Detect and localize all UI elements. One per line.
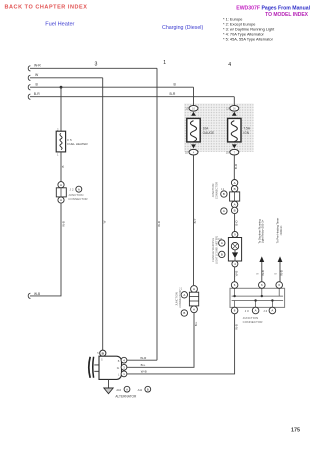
bus hook line 1 — [28, 66, 30, 71]
svg-text:A: A — [183, 293, 185, 297]
svg-text:A: A — [234, 203, 236, 207]
svg-text:B: B — [221, 253, 223, 257]
svg-text:B-Y: B-Y — [193, 219, 197, 224]
wire J2 to ground run — [30, 203, 61, 296]
svg-text:B-L: B-L — [141, 363, 146, 367]
svg-text:J 3: J 3 — [245, 309, 249, 313]
wire bus W-R — [30, 67, 157, 69]
wire W-R vertical — [156, 68, 158, 360]
svg-text:IGN: IGN — [243, 131, 249, 135]
svg-text:W-B: W-B — [235, 324, 239, 330]
svg-text:* 5: 45A, 55A Type Alternator: * 5: 45A, 55A Type Alternator — [223, 37, 274, 42]
node bus B to fuel heater — [60, 86, 63, 89]
junction connector J3 pin A lower — [231, 201, 237, 207]
wire bus W — [30, 77, 103, 79]
svg-text:A10: A10 — [116, 388, 121, 392]
svg-text:W-R: W-R — [157, 221, 161, 227]
svg-text:5: 5 — [97, 352, 99, 355]
JB bottom connector 2 — [252, 307, 259, 314]
svg-text:CONNECTOR: CONNECTOR — [68, 197, 88, 201]
svg-text:TO MODEL INDEX: TO MODEL INDEX — [265, 12, 309, 18]
connector circle A10 — [124, 386, 130, 392]
fuse IGN 7.5A — [228, 118, 241, 141]
svg-text:IG: IG — [117, 367, 120, 370]
svg-text:A: A — [60, 183, 62, 187]
alternator pin IG — [121, 364, 127, 370]
svg-text:W-B: W-B — [261, 270, 265, 276]
svg-text:FUEL HEATER: FUEL HEATER — [67, 142, 88, 146]
wire B to GAUGE fuse — [193, 87, 195, 105]
svg-text:CONNECTOR: CONNECTOR — [214, 182, 218, 199]
svg-text:1E: 1E — [274, 274, 277, 276]
svg-text:B-R: B-R — [170, 92, 176, 96]
svg-text:GAUGE: GAUGE — [203, 131, 215, 135]
junction connector J1 body — [189, 292, 198, 306]
svg-text:B: B — [36, 83, 39, 87]
svg-text:A: A — [221, 241, 223, 245]
bus hook line 3 — [28, 85, 30, 90]
fuse GAUGE 10A — [187, 118, 200, 141]
svg-text:W-B: W-B — [279, 270, 283, 276]
svg-text:CONNECTOR: CONNECTOR — [243, 320, 264, 324]
svg-text:W-R: W-R — [34, 64, 41, 68]
wire J3 to charge light — [234, 214, 236, 232]
wire charge light to JB — [234, 267, 236, 282]
svg-text:A: A — [271, 309, 273, 313]
connector 1D ign — [230, 149, 239, 155]
svg-text:J 1: J 1 — [179, 288, 183, 290]
svg-text:1D: 1D — [185, 151, 188, 154]
svg-text:B-O: B-O — [235, 220, 239, 226]
svg-text:W-R: W-R — [140, 356, 147, 360]
svg-text:C10: C10 — [218, 239, 223, 241]
wire B drop to fuel heater — [60, 87, 62, 131]
svg-text:1D: 1D — [226, 151, 229, 154]
connector circle A11 — [145, 386, 151, 392]
junction block shading — [184, 103, 254, 151]
svg-text:W-B: W-B — [61, 221, 65, 227]
svg-text:B: B — [147, 387, 149, 391]
svg-text:A: A — [255, 309, 257, 313]
charge light connector bottom — [232, 261, 238, 267]
junction connector J2 pin A bottom — [58, 197, 64, 203]
svg-text:B: B — [183, 311, 185, 315]
connector circle B of J3 — [221, 191, 227, 197]
svg-text:JUNCTION: JUNCTION — [175, 292, 179, 306]
svg-text:4: 4 — [228, 62, 231, 68]
svg-text:EWD307F Pages From Manual: EWD307F Pages From Manual — [236, 6, 310, 12]
svg-text:BACK TO CHAPTER INDEX: BACK TO CHAPTER INDEX — [5, 4, 88, 10]
charge light connector top — [232, 232, 238, 238]
svg-text:A: A — [193, 287, 195, 291]
svg-text:1: 1 — [57, 152, 59, 156]
JB bottom connector 1 — [231, 307, 238, 314]
alternator pin L — [121, 371, 127, 377]
svg-text:B: B — [174, 83, 177, 87]
junction connector J2 pin A top — [58, 182, 64, 188]
svg-text:A11: A11 — [138, 388, 143, 392]
junction connector J3 pin A — [231, 180, 237, 186]
svg-text:1: 1 — [163, 60, 166, 66]
wire bus B-R — [30, 96, 234, 98]
JB top connector 1 — [231, 282, 238, 289]
junction connector J2 body — [56, 188, 66, 197]
svg-text:W-B: W-B — [141, 370, 147, 374]
svg-text:W: W — [102, 220, 106, 223]
junction connector J3 body — [230, 192, 240, 201]
svg-text:A: A — [60, 198, 62, 202]
svg-text:B-R: B-R — [34, 92, 40, 96]
alternator body — [99, 356, 122, 379]
connector circle C10 lower — [219, 251, 225, 257]
junction connector J3 pin B lower — [231, 207, 237, 213]
svg-text:175: 175 — [291, 428, 300, 434]
svg-text:B-L: B-L — [194, 321, 198, 326]
wire fuel heater to J2 — [60, 152, 62, 182]
connector circle A2 of J3 — [221, 208, 227, 214]
wire bus B — [30, 86, 194, 88]
svg-text:W: W — [35, 73, 39, 77]
connector circle A of J2 — [76, 186, 82, 192]
svg-text:A: A — [234, 181, 236, 185]
connector circle J1 left lower — [181, 310, 187, 316]
wire JB to alternator E — [127, 314, 235, 374]
svg-text:W-B: W-B — [34, 292, 40, 296]
connector 1J ign — [230, 106, 239, 112]
svg-text:B: B — [61, 165, 65, 167]
svg-text:Charging (Diesel): Charging (Diesel) — [162, 25, 203, 31]
svg-text:CHARGE WARNING: CHARGE WARNING — [211, 238, 215, 262]
connector circle C10 upper — [219, 240, 225, 246]
svg-text:B: B — [234, 209, 236, 213]
arrow into gauge fuse — [191, 112, 196, 116]
junction connector J1 pin bottom — [191, 306, 198, 313]
hook ground wire — [28, 293, 30, 298]
bus hook line 4 — [28, 94, 30, 99]
svg-text:3: 3 — [95, 62, 98, 68]
svg-text:J 2: J 2 — [70, 188, 74, 192]
svg-text:A: A — [78, 187, 80, 191]
ground symbol — [104, 388, 113, 394]
junction connector J3 pin B — [231, 186, 237, 192]
arrow to pre-heating timer — [278, 256, 283, 281]
arrow to daytime running light relay — [259, 256, 264, 281]
junction block J3 J4 — [230, 288, 285, 307]
connector circle J1 left upper — [181, 292, 187, 298]
svg-text:Fuel Heater: Fuel Heater — [45, 21, 74, 27]
svg-text:B: B — [234, 187, 236, 191]
alternator connector top — [100, 350, 106, 356]
alternator pulley — [89, 357, 99, 378]
svg-text:A: A — [126, 387, 128, 391]
bus hook line 2 — [28, 75, 30, 80]
svg-text:JUNCTION: JUNCTION — [211, 184, 215, 198]
arrow out of ign fuse — [232, 144, 237, 148]
svg-text:CONNECTOR: CONNECTOR — [178, 290, 182, 307]
junction connector J1 pin top — [191, 286, 198, 293]
svg-text:To Pre-Heating Timer: To Pre-Heating Timer — [276, 218, 280, 243]
wire gauge fuse to J1 — [193, 155, 195, 285]
svg-text:J 4: J 4 — [263, 309, 267, 313]
wire ign fuse to J3 — [233, 155, 235, 180]
connector 1D gauge — [189, 149, 198, 155]
svg-text:A: A — [193, 308, 195, 312]
svg-text:B: B — [223, 192, 225, 196]
svg-text:1E: 1E — [256, 274, 259, 276]
svg-text:W-B: W-B — [235, 271, 239, 277]
JB top connector 3 — [276, 282, 283, 289]
svg-text:ALTERNATOR: ALTERNATOR — [115, 395, 137, 399]
JB bottom connector 3 — [269, 307, 276, 314]
svg-text:B-O: B-O — [234, 163, 238, 169]
svg-text:A: A — [223, 209, 225, 213]
svg-text:To Daytime Running: To Daytime Running — [257, 219, 261, 244]
svg-text:<169-3>: <169-3> — [279, 225, 283, 235]
connector 1J gauge — [189, 106, 198, 112]
svg-text:LIGHT [COMB. METER]: LIGHT [COMB. METER] — [214, 236, 218, 264]
arrow into ign fuse — [232, 112, 237, 116]
wire W vertical — [102, 78, 104, 350]
wire J1 to alternator L — [127, 313, 194, 368]
alternator ground wire — [108, 380, 110, 389]
wire B-R to IGN fuse — [233, 97, 235, 106]
alternator pin B — [121, 357, 127, 363]
svg-text:Light Relay<203-3>: Light Relay<203-3> — [261, 219, 265, 243]
JB top connector 2 — [259, 282, 266, 289]
wire alternator B to W-R — [127, 359, 157, 361]
fuel heater F5 — [56, 131, 65, 152]
arrow out of gauge fuse — [191, 144, 196, 148]
charge warning light — [228, 238, 241, 262]
